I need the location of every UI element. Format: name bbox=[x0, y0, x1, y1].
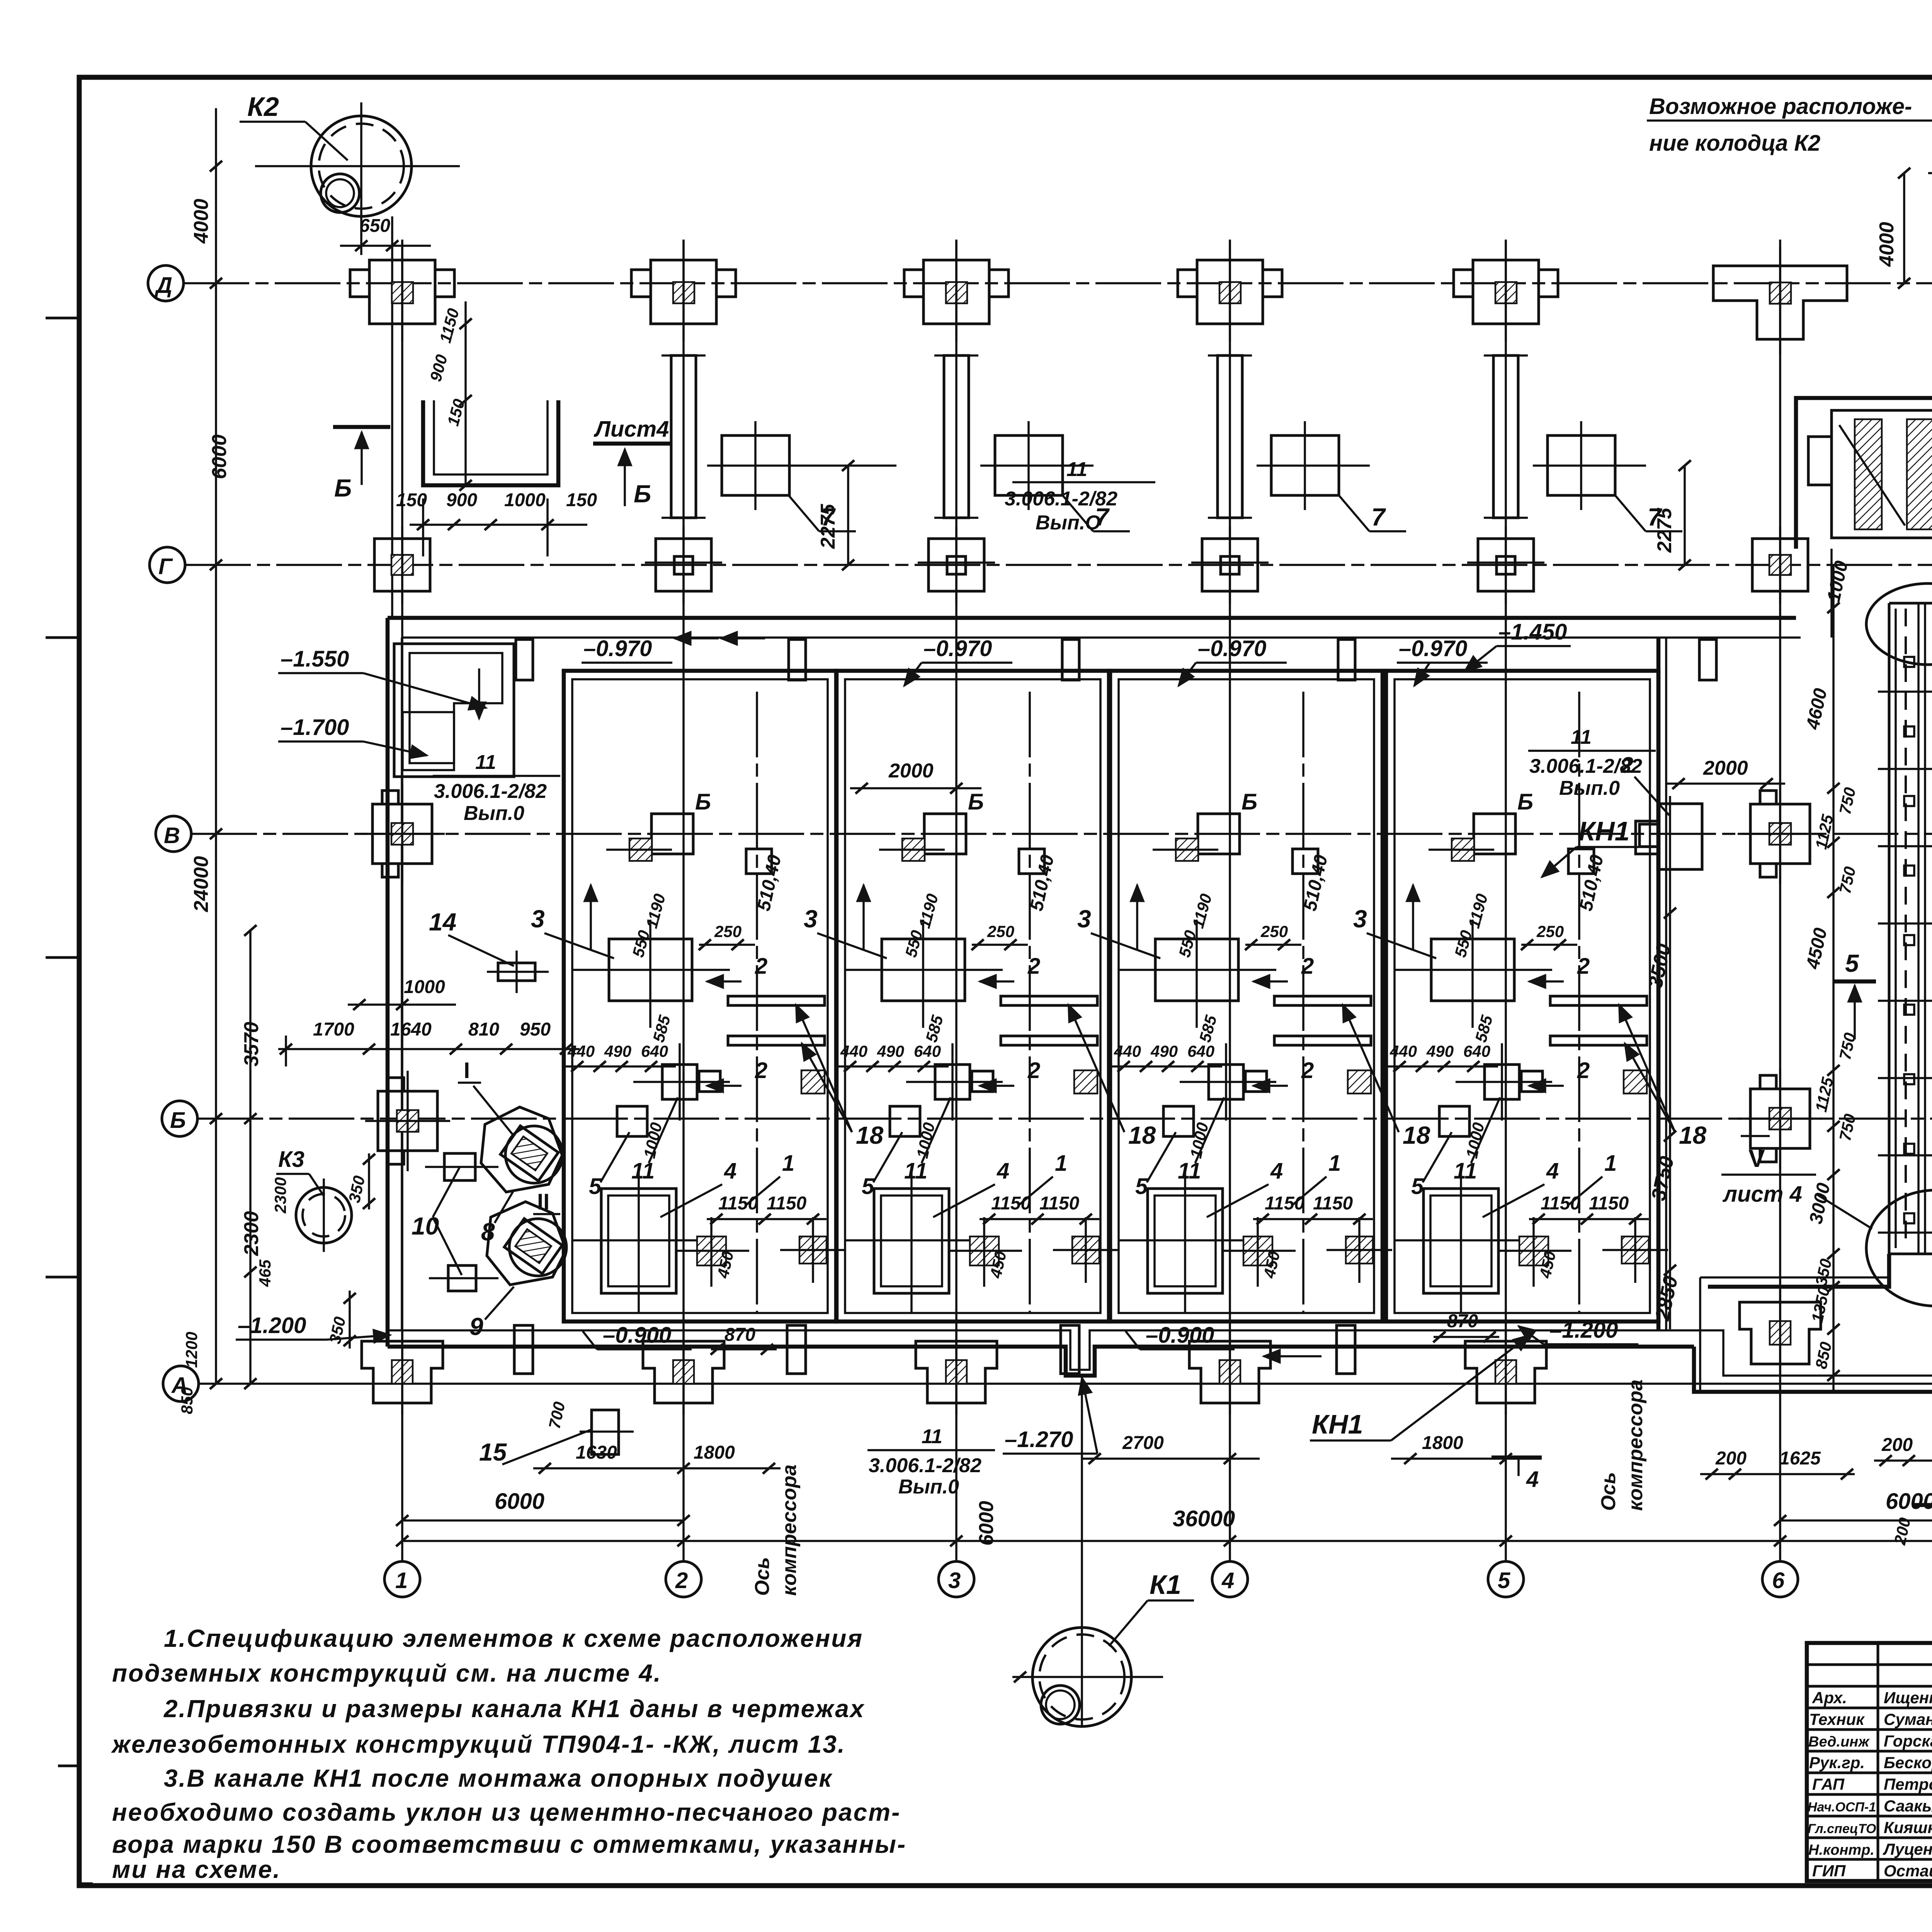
svg-text:Возможное расположе-: Возможное расположе- bbox=[1649, 94, 1912, 119]
dim 700 rotated at 15 bbox=[545, 1400, 569, 1430]
detail ellipse IV bbox=[1866, 583, 1932, 665]
svg-text:ГИП: ГИП bbox=[1812, 1862, 1846, 1880]
svg-text:1630: 1630 bbox=[576, 1442, 617, 1463]
compressor bay room 3 (axis 4) bbox=[1061, 639, 1392, 1374]
dim 4000 right K2 bbox=[1876, 168, 1910, 289]
svg-text:компрессора: компрессора bbox=[1624, 1379, 1647, 1511]
svg-text:18: 18 bbox=[1679, 1121, 1707, 1149]
U-shaped duct below footing D/1 bbox=[423, 400, 558, 485]
svg-text:подземных конструкций см.: подземных конструкций см. на листе 4. bbox=[112, 1659, 662, 1687]
label 18 bay4 bbox=[1619, 1005, 1707, 1149]
label K1 bbox=[1109, 1570, 1194, 1646]
detail ellipse V bbox=[1816, 1190, 1932, 1306]
dim 350 upper bbox=[345, 1153, 375, 1209]
label KN1 in bay4 bbox=[1542, 816, 1658, 877]
label Vozmozhnoe raspolozhenie kolodtsa K2 bbox=[1647, 94, 1932, 158]
svg-text:Н.контр.: Н.контр. bbox=[1808, 1842, 1874, 1858]
svg-text:6000: 6000 bbox=[1886, 1489, 1932, 1514]
svg-text:Ось: Ось bbox=[1597, 1472, 1620, 1511]
svg-text:Д: Д bbox=[154, 273, 172, 298]
wall slot right end top bbox=[1699, 639, 1716, 680]
svg-text:3: 3 bbox=[948, 1568, 961, 1593]
column footing G/4 bbox=[1191, 526, 1269, 604]
elevation -1.200 bay4 bbox=[1519, 1318, 1638, 1344]
axis circle V bbox=[156, 816, 191, 852]
svg-text:Вед.инж: Вед.инж bbox=[1808, 1734, 1870, 1750]
svg-text:Ищенко: Ищенко bbox=[1884, 1689, 1932, 1707]
svg-text:465: 465 bbox=[256, 1259, 274, 1287]
svg-text:1640: 1640 bbox=[390, 1019, 432, 1040]
svg-text:Осташевский: Осташевский bbox=[1884, 1862, 1932, 1880]
svg-text:9: 9 bbox=[469, 1313, 483, 1340]
column footing V/1 bbox=[360, 784, 445, 884]
beam pad 7 between axes 3-4 bbox=[980, 421, 1130, 531]
svg-text:железобетонных конструкций Т: железобетонных конструкций ТП904-1- -КЖ,… bbox=[111, 1730, 846, 1758]
svg-text:2700: 2700 bbox=[1122, 1433, 1164, 1453]
svg-text:необходимо создать уклон из: необходимо создать уклон из цементно-пес… bbox=[112, 1798, 901, 1826]
axis circle B bbox=[162, 1101, 197, 1136]
svg-text:Вып.О: Вып.О bbox=[1036, 512, 1101, 534]
label 8 with leader bbox=[481, 1190, 514, 1246]
ref label 11 / 3.006.1-2/82 vyp.0 above G bbox=[1005, 458, 1155, 534]
label 9 with leader bbox=[469, 1287, 514, 1340]
svg-text:24000: 24000 bbox=[190, 856, 213, 912]
svg-text:1.Спецификацию элементов к: 1.Спецификацию элементов к схеме располо… bbox=[164, 1624, 863, 1652]
svg-text:1000: 1000 bbox=[504, 490, 546, 510]
svg-text:1800: 1800 bbox=[694, 1442, 735, 1463]
svg-text:компрессора: компрессора bbox=[778, 1464, 801, 1596]
arrow left at bay1 top bbox=[721, 637, 765, 639]
elevation -0.970 bay1 bbox=[582, 636, 719, 663]
svg-text:Техник: Техник bbox=[1809, 1710, 1865, 1728]
marker 4 bottom left arrow bbox=[1492, 1458, 1542, 1492]
svg-text:36000: 36000 bbox=[1173, 1506, 1235, 1531]
label 18 bay1 bbox=[796, 1005, 884, 1149]
label I bbox=[458, 1058, 514, 1136]
svg-text:Нач.ОСП-1: Нач.ОСП-1 bbox=[1808, 1800, 1876, 1815]
svg-text:11: 11 bbox=[1571, 726, 1592, 748]
svg-text:–1.450: –1.450 bbox=[1498, 619, 1567, 645]
svg-text:I: I bbox=[464, 1058, 470, 1083]
label K2 with leader bbox=[240, 92, 348, 160]
svg-text:лист 4: лист 4 bbox=[1722, 1182, 1802, 1207]
axis circle A bbox=[163, 1366, 199, 1401]
svg-text:18: 18 bbox=[1128, 1121, 1156, 1149]
elevation -1.270 center bottom bbox=[1003, 1378, 1097, 1454]
section marker B left bbox=[333, 427, 390, 502]
svg-text:Б: Б bbox=[334, 474, 352, 502]
signature table texts bbox=[1808, 1689, 1932, 1880]
dim 870 bay4 bbox=[1433, 1311, 1499, 1342]
svg-text:200: 200 bbox=[1715, 1448, 1747, 1469]
building exterior wall bbox=[388, 549, 1932, 1392]
svg-text:–0.970: –0.970 bbox=[583, 636, 652, 661]
svg-text:–1.550: –1.550 bbox=[281, 646, 349, 672]
axis bubble 6 bbox=[1762, 1561, 1798, 1597]
svg-text:5: 5 bbox=[1498, 1568, 1510, 1593]
svg-text:4000: 4000 bbox=[1876, 222, 1898, 267]
svg-text:6: 6 bbox=[1772, 1568, 1785, 1593]
svg-text:2: 2 bbox=[1621, 753, 1633, 778]
svg-text:2: 2 bbox=[675, 1568, 688, 1593]
svg-text:2000: 2000 bbox=[1703, 757, 1748, 779]
svg-text:II: II bbox=[537, 1189, 549, 1214]
svg-text:1000: 1000 bbox=[404, 977, 445, 997]
svg-text:Горская: Горская bbox=[1884, 1732, 1932, 1750]
overall dim 36000 bbox=[396, 1506, 1932, 1546]
svg-text:Саакьянц: Саакьянц bbox=[1884, 1797, 1932, 1815]
svg-text:–0.900: –0.900 bbox=[603, 1323, 671, 1348]
elevation -0.970 bay3 bbox=[1179, 636, 1287, 686]
svg-text:1700: 1700 bbox=[313, 1019, 354, 1040]
dims 150 900 1000 150 below duct bbox=[396, 490, 597, 556]
compressor bay room 2 (axis 3) bbox=[787, 639, 1119, 1374]
axis bubble 5 bbox=[1488, 1561, 1524, 1597]
column footing D/4 bbox=[1178, 241, 1282, 341]
elevation -0.970 bay2 bbox=[904, 636, 1012, 686]
dim 1000 left interior bbox=[348, 977, 456, 1010]
svg-text:1200: 1200 bbox=[182, 1332, 201, 1368]
axis line G bbox=[185, 564, 1932, 566]
column footing G/2 bbox=[645, 526, 722, 604]
svg-text:200: 200 bbox=[1881, 1435, 1913, 1455]
beam pad 7 between axes 2-3 bbox=[707, 421, 896, 531]
column footing V/6 bbox=[1738, 784, 1823, 884]
axis label Os kompressora (left) bbox=[751, 1464, 801, 1596]
label -1.550 bbox=[278, 646, 486, 708]
svg-text:Г: Г bbox=[158, 554, 173, 579]
svg-text:–1.270: –1.270 bbox=[1005, 1427, 1073, 1452]
signature table grid bbox=[1807, 1643, 1932, 1881]
svg-text:1: 1 bbox=[395, 1568, 408, 1593]
svg-text:Вып.0: Вып.0 bbox=[898, 1476, 959, 1498]
label V list 4 bbox=[1721, 1136, 1816, 1207]
svg-text:ние колодца К2: ние колодца К2 bbox=[1649, 131, 1820, 156]
dim 870 bay1 bbox=[711, 1325, 777, 1355]
svg-text:11: 11 bbox=[1066, 458, 1087, 481]
svg-text:ГАП: ГАП bbox=[1812, 1775, 1845, 1793]
svg-text:–0.970: –0.970 bbox=[923, 636, 992, 661]
bottom dim 1800 right bbox=[1391, 1433, 1542, 1464]
svg-text:7: 7 bbox=[1371, 503, 1386, 531]
bottom dim 200 1350 500 bbox=[1874, 1435, 1932, 1466]
detail circle I with pedestal bbox=[481, 1107, 563, 1192]
column footing A/5 bbox=[1465, 1330, 1546, 1415]
fold mark ticks left edge bbox=[46, 318, 93, 1884]
well K2 top-left bbox=[255, 102, 460, 255]
column footing A/4 bbox=[1189, 1330, 1270, 1415]
dim 2275 between axes 5-6 bbox=[1653, 460, 1691, 570]
pilaster strip axis4 bbox=[1208, 355, 1252, 518]
svg-text:870: 870 bbox=[1447, 1311, 1478, 1332]
svg-text:18: 18 bbox=[856, 1121, 884, 1149]
duct dim line left bbox=[1827, 565, 1840, 1392]
label 10 with leader bbox=[412, 1167, 462, 1275]
dim 3500 rotated bay4 left bbox=[1644, 796, 1682, 1329]
column footing A/6 bbox=[1740, 1291, 1821, 1376]
column footing A/3 bbox=[916, 1330, 997, 1415]
compressor bay room 1 (axis 2) bbox=[514, 639, 846, 1374]
svg-text:900: 900 bbox=[446, 490, 477, 510]
svg-text:КН1: КН1 bbox=[1312, 1409, 1363, 1439]
svg-text:–0.970: –0.970 bbox=[1198, 636, 1266, 661]
svg-text:6000: 6000 bbox=[495, 1489, 544, 1514]
anchor square lower left bbox=[429, 1265, 498, 1291]
column footing D/5 bbox=[1454, 241, 1558, 341]
ref label 11/3.006.1-2/82 right of bay4 bbox=[1528, 726, 1656, 799]
column footing D/1 bbox=[350, 241, 454, 341]
anchor plate 14 with label bbox=[429, 908, 549, 993]
bottom dim 2700 bbox=[1082, 1433, 1260, 1464]
svg-text:150: 150 bbox=[566, 490, 597, 510]
beam pad 7 between axes 4-5 bbox=[1257, 421, 1406, 531]
dim 6000 span 6-7 bbox=[1774, 1489, 1932, 1526]
partition wall right of bay4 bbox=[1658, 638, 1666, 1330]
svg-text:К2: К2 bbox=[247, 92, 279, 122]
svg-text:14: 14 bbox=[429, 908, 456, 936]
svg-text:18: 18 bbox=[1403, 1121, 1430, 1149]
stair enclosure top right bbox=[1796, 398, 1932, 549]
svg-text:К1: К1 bbox=[1150, 1570, 1181, 1600]
column footing G/1 bbox=[374, 526, 430, 604]
pilaster strip axis3 bbox=[934, 355, 978, 518]
label II bbox=[533, 1189, 560, 1214]
vertical axis centerlines 1..7 bbox=[402, 240, 1932, 1561]
svg-text:1625: 1625 bbox=[1779, 1448, 1821, 1469]
svg-text:Лист4: Лист4 bbox=[594, 417, 669, 442]
dim 650 under K2 bbox=[340, 216, 431, 618]
pilaster strip axis5 bbox=[1484, 355, 1528, 518]
svg-text:3570: 3570 bbox=[240, 1022, 263, 1066]
svg-text:Вып.0: Вып.0 bbox=[1559, 777, 1620, 799]
svg-text:КН1: КН1 bbox=[1578, 816, 1630, 846]
svg-text:–1.700: –1.700 bbox=[281, 715, 349, 740]
svg-text:5: 5 bbox=[1845, 949, 1859, 977]
label KN1 bottom with arrow bbox=[1310, 1335, 1530, 1440]
svg-text:Ось: Ось bbox=[751, 1557, 774, 1596]
duct connection to top wall bbox=[1832, 549, 1932, 638]
pit room -1.550 top-left corner bbox=[394, 644, 514, 777]
svg-text:Б: Б bbox=[634, 480, 651, 508]
column footing A/1 bbox=[362, 1330, 443, 1415]
svg-text:Арх.: Арх. bbox=[1812, 1689, 1847, 1707]
marker 4 bottom right arrow bbox=[1913, 1475, 1932, 1522]
beam pad 7 between axes 5-6 bbox=[1533, 421, 1682, 531]
general notes bbox=[111, 1624, 906, 1883]
ref label 11/3.006.1-2/82 left of bay1 bbox=[433, 751, 560, 825]
svg-text:2275: 2275 bbox=[1653, 507, 1676, 553]
axis label Os kompressora (right) bbox=[1597, 1379, 1647, 1511]
left secondary chain bbox=[244, 925, 257, 1389]
label List 4 with section marker B right bbox=[593, 417, 670, 508]
svg-text:850: 850 bbox=[178, 1387, 196, 1414]
section marker 5 left bbox=[1833, 949, 1876, 1039]
elevation -0.900 bay1 bbox=[583, 1323, 692, 1349]
column footing G/6 bbox=[1752, 526, 1808, 604]
svg-text:8: 8 bbox=[481, 1218, 495, 1246]
detail circle II with pedestal bbox=[487, 1202, 566, 1285]
svg-text:ми на схеме.: ми на схеме. bbox=[112, 1855, 281, 1883]
svg-text:810: 810 bbox=[468, 1019, 499, 1040]
bottom dim 200 1625 bbox=[1700, 1448, 1855, 1480]
svg-text:К3: К3 bbox=[278, 1147, 304, 1172]
dim 350 lower bbox=[326, 1291, 356, 1349]
svg-text:Кияшко: Кияшко bbox=[1884, 1818, 1932, 1837]
axis circle G bbox=[150, 547, 185, 583]
column footing D/6 bbox=[1713, 247, 1847, 355]
svg-text:11: 11 bbox=[922, 1425, 942, 1448]
svg-text:–1.200: –1.200 bbox=[238, 1313, 306, 1338]
svg-text:4: 4 bbox=[1526, 1467, 1539, 1492]
ref label 11/3.006.1-2/82 bottom bbox=[867, 1425, 995, 1498]
compressor pad 2 right of bay4 bbox=[1621, 753, 1702, 869]
svg-text:4: 4 bbox=[1221, 1568, 1234, 1593]
elevation -0.900 bay2 bbox=[1126, 1323, 1235, 1349]
duct rung lines bbox=[1878, 692, 1932, 1233]
svg-text:3.006.1-2/82: 3.006.1-2/82 bbox=[1005, 488, 1117, 510]
axis bubble 3 bbox=[939, 1561, 974, 1597]
label 18 bay2 bbox=[1068, 1005, 1156, 1149]
arrow left at bay2 bottom bbox=[1264, 1355, 1321, 1357]
svg-text:10: 10 bbox=[412, 1212, 439, 1240]
svg-text:Суман: Суман bbox=[1884, 1710, 1932, 1728]
axis line A bbox=[199, 1383, 1932, 1385]
well K3 bbox=[276, 1147, 352, 1252]
column footing B/6 bbox=[1738, 1068, 1823, 1169]
well K2 top-right (possible location) bbox=[1928, 101, 1932, 270]
dim chain 1700 1640 810 950 bbox=[278, 1019, 580, 1066]
dim 2000 right of bay4 bbox=[1665, 757, 1785, 789]
axis bubble 4 bbox=[1212, 1561, 1248, 1597]
well K1 bbox=[1012, 1376, 1163, 1727]
svg-text:2275: 2275 bbox=[817, 503, 839, 549]
svg-text:3.006.1-2/82: 3.006.1-2/82 bbox=[869, 1454, 981, 1477]
svg-text:950: 950 bbox=[520, 1019, 551, 1040]
column footing D/3 bbox=[904, 241, 1009, 341]
left dimension chain line bbox=[210, 108, 222, 1389]
svg-text:2000: 2000 bbox=[888, 760, 934, 782]
axis line D bbox=[184, 282, 1932, 284]
svg-text:Бескорабайн.: Бескорабайн. bbox=[1884, 1753, 1932, 1772]
column footing A/2 bbox=[643, 1330, 724, 1415]
svg-text:Петровский: Петровский bbox=[1884, 1775, 1932, 1793]
svg-text:3.В канале КН1 после монта: 3.В канале КН1 после монтажа опорных под… bbox=[164, 1764, 833, 1792]
label 18 bay3 bbox=[1343, 1005, 1430, 1149]
dim 2000 right of bay1 bbox=[850, 760, 981, 794]
svg-text:11: 11 bbox=[475, 751, 496, 774]
column footing G/5 bbox=[1467, 526, 1544, 604]
anchor square row B left bbox=[425, 1153, 498, 1180]
axis bubble 2 bbox=[666, 1561, 701, 1597]
compressor bay room 4 (axis 5) bbox=[1337, 639, 1668, 1374]
column footing B/1 bbox=[365, 1071, 450, 1171]
elevation -1.200 left bbox=[236, 1313, 390, 1340]
svg-text:Рук.гр.: Рук.гр. bbox=[1809, 1753, 1865, 1772]
svg-text:2300: 2300 bbox=[240, 1211, 263, 1256]
label -1.700 bbox=[278, 715, 427, 755]
svg-text:6000: 6000 bbox=[975, 1501, 998, 1546]
svg-text:1800: 1800 bbox=[1422, 1433, 1463, 1453]
dims 1150/900/150 rotated right of D/1 bbox=[426, 301, 472, 491]
svg-text:–0.900: –0.900 bbox=[1146, 1323, 1214, 1348]
elevation -1.450 right end bbox=[1464, 619, 1571, 672]
svg-text:2300: 2300 bbox=[271, 1177, 289, 1214]
axis line V bbox=[191, 833, 1932, 835]
svg-text:–1.200: –1.200 bbox=[1549, 1318, 1618, 1343]
column footing G/3 bbox=[918, 526, 995, 604]
axis bubble 1 bbox=[384, 1561, 420, 1597]
anchor plate 15 with label bbox=[479, 1410, 634, 1466]
elevation -0.970 bay4 bbox=[1397, 636, 1488, 686]
duct anchor dots bbox=[1904, 657, 1914, 1223]
dim 2275 between axes 2-3 bbox=[817, 460, 854, 570]
svg-text:Вып.0: Вып.0 bbox=[464, 802, 524, 825]
svg-text:В: В bbox=[164, 823, 180, 848]
svg-text:Б: Б bbox=[170, 1108, 186, 1133]
svg-text:Луценко: Луценко bbox=[1883, 1840, 1932, 1858]
dim 6000 span 1-2 bbox=[396, 1489, 690, 1526]
svg-text:15: 15 bbox=[479, 1438, 507, 1466]
svg-text:4000: 4000 bbox=[190, 199, 213, 244]
column footing D/2 bbox=[631, 241, 736, 341]
svg-text:6000: 6000 bbox=[208, 434, 231, 479]
axis circle D bbox=[148, 265, 184, 301]
axis line B bbox=[197, 1117, 1932, 1120]
svg-text:Гл.спецТО: Гл.спецТО bbox=[1808, 1821, 1876, 1836]
svg-text:870: 870 bbox=[724, 1325, 755, 1345]
svg-text:2.Привязки и размеры канала: 2.Привязки и размеры канала КН1 даны в ч… bbox=[163, 1695, 865, 1723]
title block outline bbox=[1807, 1643, 1932, 1881]
air duct trench KN1 outline bbox=[1700, 603, 1932, 1392]
svg-text:вора марки 150 В соответст: вора марки 150 В соответствии с отметкам… bbox=[112, 1830, 906, 1858]
svg-text:650: 650 bbox=[359, 216, 390, 236]
svg-text:–0.970: –0.970 bbox=[1399, 636, 1467, 661]
svg-text:3.006.1-2/82: 3.006.1-2/82 bbox=[434, 780, 547, 803]
pilaster strip axis2 bbox=[662, 355, 706, 518]
bottom dim chain 1630 1800 bbox=[533, 1442, 781, 1474]
